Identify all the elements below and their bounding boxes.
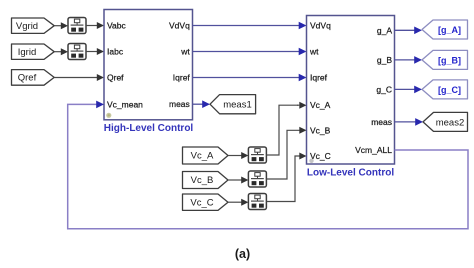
from tag Vc_B bbox=[183, 172, 229, 189]
wire VdVq bbox=[193, 22, 307, 30]
wire Vcm_ALL feedback loop bbox=[68, 101, 468, 229]
goto tag g_B bbox=[422, 50, 468, 69]
wire Vc_A to converter bbox=[228, 152, 248, 159]
svg-text:Iabc: Iabc bbox=[107, 47, 124, 57]
converter block SB3 bbox=[248, 147, 266, 163]
svg-text:Iqref: Iqref bbox=[173, 73, 191, 83]
badge in Low-Level Control bbox=[309, 159, 313, 163]
goto tag meas1 bbox=[210, 95, 256, 114]
goto tag g_A bbox=[422, 20, 468, 39]
svg-text:Vc_mean: Vc_mean bbox=[107, 99, 143, 109]
subsystem Low-Level Control bbox=[307, 16, 395, 165]
wire Iqref bbox=[193, 74, 307, 82]
svg-text:Qref: Qref bbox=[18, 73, 37, 84]
svg-text:Iqref: Iqref bbox=[310, 73, 328, 83]
svg-text:Igrid: Igrid bbox=[18, 47, 36, 58]
svg-text:[g_A]: [g_A] bbox=[438, 25, 461, 35]
svg-text:Vgrid: Vgrid bbox=[16, 21, 38, 32]
wire wt bbox=[193, 48, 307, 56]
svg-text:[g_C]: [g_C] bbox=[438, 85, 461, 95]
wire Igrid to converter bbox=[54, 48, 68, 55]
wire g_B to goto tag bbox=[395, 56, 423, 64]
wire Vgrid to converter bbox=[54, 22, 68, 29]
wire Vc_B to converter bbox=[228, 177, 248, 184]
goto tag g_C bbox=[422, 80, 468, 99]
subsystem High-Level Control bbox=[104, 10, 193, 120]
svg-text:VdVq: VdVq bbox=[310, 21, 331, 31]
svg-text:VdVq: VdVq bbox=[169, 21, 190, 31]
wire Qref to Qref port bbox=[54, 74, 104, 81]
svg-text:Vc_A: Vc_A bbox=[191, 151, 214, 162]
wire Vc_C to converter bbox=[228, 199, 248, 206]
wire g_C to goto tag bbox=[395, 86, 423, 94]
svg-text:Qref: Qref bbox=[107, 73, 124, 83]
goto tag meas2 bbox=[423, 112, 468, 131]
svg-text:Vc_C: Vc_C bbox=[190, 198, 213, 209]
wire meas to meas2 bbox=[395, 118, 424, 126]
svg-text:meas1: meas1 bbox=[223, 100, 252, 111]
from tag Qref bbox=[12, 70, 55, 86]
from tag Igrid bbox=[12, 44, 55, 59]
svg-text:g_B: g_B bbox=[377, 55, 392, 65]
svg-text:Low-Level Control: Low-Level Control bbox=[307, 168, 394, 179]
badge in High-Level Control bbox=[106, 113, 111, 118]
from tag Vc_A bbox=[183, 147, 229, 164]
svg-text:Vc_A: Vc_A bbox=[310, 100, 331, 110]
svg-text:wt: wt bbox=[180, 47, 190, 57]
wire meas to meas1 bbox=[193, 100, 211, 108]
from tag Vgrid bbox=[12, 18, 55, 33]
svg-text:meas: meas bbox=[169, 99, 190, 109]
svg-text:meas2: meas2 bbox=[436, 117, 465, 128]
svg-text:Vabc: Vabc bbox=[107, 21, 126, 31]
svg-text:g_C: g_C bbox=[376, 84, 392, 94]
svg-text:Vc_B: Vc_B bbox=[310, 125, 331, 135]
converter block SB4 bbox=[248, 171, 266, 187]
svg-text:g_A: g_A bbox=[377, 25, 392, 35]
wire SB2 to Iabc port bbox=[86, 48, 104, 55]
wire SB1 to Vabc port bbox=[86, 22, 104, 29]
svg-text:(a): (a) bbox=[235, 247, 250, 261]
wire SB4 to Vc_B port bbox=[266, 127, 306, 179]
svg-text:[g_B]: [g_B] bbox=[438, 55, 461, 65]
svg-text:High-Level Control: High-Level Control bbox=[104, 123, 194, 134]
wire SB3 to Vc_A port bbox=[266, 102, 306, 155]
converter block SB2 bbox=[68, 44, 86, 60]
converter block SB1 bbox=[68, 18, 86, 34]
svg-text:Vc_B: Vc_B bbox=[191, 175, 214, 186]
svg-text:Vcm_ALL: Vcm_ALL bbox=[355, 145, 392, 155]
wire g_A to goto tag bbox=[395, 27, 423, 35]
from tag Vc_C bbox=[183, 194, 229, 210]
svg-text:wt: wt bbox=[309, 47, 319, 57]
wire SB5 to Vc_C port bbox=[266, 153, 306, 202]
converter block SB5 bbox=[248, 194, 266, 210]
svg-text:meas: meas bbox=[371, 117, 392, 127]
